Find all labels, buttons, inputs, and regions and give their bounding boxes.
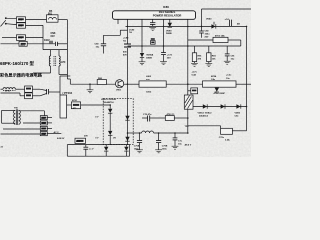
svg-text:VD80A: VD80A (146, 54, 153, 57)
svg-text:40V: 40V (123, 54, 127, 57)
svg-text:+C71: +C71 (167, 55, 173, 57)
svg-text:C70x: C70x (219, 137, 225, 139)
svg-text:AC 2: AC 2 (54, 131, 60, 134)
svg-text:35V: 35V (167, 58, 171, 60)
svg-text:4T03 11: 4T03 11 (167, 113, 176, 116)
svg-text:803: 803 (18, 36, 23, 40)
svg-text:LP01: LP01 (5, 91, 11, 93)
svg-text:801: 801 (18, 18, 23, 22)
svg-text:AT01: AT01 (72, 99, 78, 102)
svg-text:AT04: AT04 (211, 75, 217, 78)
svg-text:+C80: +C80 (123, 38, 129, 40)
svg-text:彩色显示器的电源电路: 彩色显示器的电源电路 (0, 71, 43, 78)
svg-text:0 V: 0 V (95, 138, 99, 140)
svg-text:10u: 10u (96, 47, 100, 49)
svg-text:4T04: 4T04 (214, 92, 220, 95)
svg-text:POWER REGULATOR: POWER REGULATOR (153, 14, 183, 18)
svg-text:L802: L802 (146, 76, 152, 78)
svg-text:VD40: VD40 (206, 18, 212, 21)
svg-text:68PK-160/170 型: 68PK-160/170 型 (0, 60, 35, 67)
svg-text:7A: 7A (129, 31, 132, 34)
svg-text:C70 47u: C70 47u (143, 113, 152, 116)
svg-text:802: 802 (18, 24, 23, 28)
svg-text:VD8x1 VD8x2: VD8x1 VD8x2 (198, 113, 213, 115)
svg-text:IC80: IC80 (163, 5, 169, 9)
svg-text:25V: 25V (205, 37, 209, 39)
svg-text:C812: C812 (146, 92, 152, 94)
svg-text:10u: 10u (231, 59, 235, 61)
svg-text:20V: 20V (84, 136, 88, 138)
svg-text:0 V: 0 V (95, 117, 99, 119)
svg-text:LP0: LP0 (61, 61, 66, 64)
svg-text:D80P: D80P (220, 93, 226, 95)
svg-text:A8.5 V: A8.5 V (185, 144, 192, 147)
svg-text:( PT004: ( PT004 (63, 91, 73, 95)
svg-text:801: 801 (21, 43, 26, 47)
svg-text:2.2A: 2.2A (225, 139, 230, 142)
svg-text:D4x48=2: D4x48=2 (199, 115, 209, 118)
svg-text:10u: 10u (178, 144, 182, 146)
svg-text:VD901~VD904: VD901~VD904 (101, 98, 116, 101)
svg-text:4B: 4B (237, 23, 240, 26)
svg-text:100u: 100u (205, 34, 211, 36)
svg-text:xx V: xx V (89, 149, 94, 151)
svg-text:+C3x: +C3x (226, 75, 232, 77)
svg-text:D80B: D80B (146, 58, 152, 60)
svg-text:D8.ABP14: D8.ABP14 (103, 101, 114, 104)
svg-text:801: 801 (48, 13, 53, 16)
svg-text:7A: 7A (123, 40, 126, 43)
svg-text:C70A: C70A (134, 145, 140, 148)
svg-text:310V: 310V (44, 39, 50, 42)
svg-text:A18.5V: A18.5V (57, 137, 65, 140)
svg-text:100u: 100u (162, 149, 168, 151)
svg-text:+C7x: +C7x (192, 72, 198, 74)
svg-text:VD83: VD83 (235, 113, 241, 115)
svg-text:100u: 100u (134, 149, 140, 151)
svg-text:C70B: C70B (162, 146, 168, 148)
svg-text:4T03 14A: 4T03 14A (215, 35, 225, 38)
svg-text:D80B: D80B (166, 33, 172, 35)
svg-text:V801: V801 (116, 90, 122, 92)
svg-text:61V: 61V (51, 35, 56, 38)
